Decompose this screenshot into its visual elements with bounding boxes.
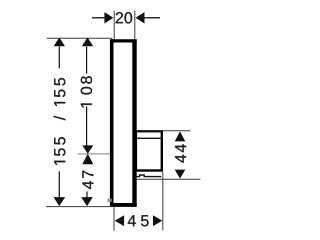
dim 44 arrow up [175, 131, 186, 141]
dim 108 line upper stub [86, 47, 88, 74]
dim 155/155 bottom arrow [54, 197, 66, 206]
dim 20 left arrow [104, 12, 113, 23]
dim 47 line lower stub [86, 192, 88, 198]
dim 155/155 top arrow [54, 37, 65, 46]
plate top edge [111, 39, 137, 42]
dim 44 arrow down [175, 170, 186, 179]
dim 20 right extension line [134, 11, 136, 40]
dim 155/155 text (rotated) [54, 78, 66, 165]
escutcheon plate left edge (front face) [110, 39, 114, 207]
dim 45 right arrow [153, 215, 162, 226]
dim 44 text (rotated) [175, 144, 186, 162]
dim 108 top arrow [82, 37, 93, 46]
dim 47 top arrow (bow-tie lower) [82, 154, 93, 165]
dim 45 text [128, 215, 149, 226]
44 bottom extension line [135, 178, 200, 180]
dim 45 right extension line [162, 172, 164, 231]
plate corner detail [108, 199, 112, 202]
dim 45 left extension line [113, 207, 115, 230]
dim 155/155 line lower stub [58, 171, 60, 197]
box bottom stub line with bump (44 bottom extension) [134, 175, 161, 177]
dim 20 left extension line [113, 11, 115, 40]
plate bottom edge [111, 203, 137, 207]
left bottom extension line [46, 206, 112, 208]
dim 108 text (rotated) [81, 76, 92, 107]
dim 155/155 line upper stub [58, 47, 60, 69]
left top extension line [47, 37, 113, 39]
dim 108 line lower stub [86, 107, 88, 147]
gray center line [78, 153, 111, 155]
box inner top line [137, 137, 160, 139]
dim 45 left arrow [115, 215, 124, 226]
dim 20 right tail [145, 17, 161, 19]
dim 20 text [116, 12, 132, 23]
valve body box [136, 131, 162, 170]
dim 20 right arrow [136, 12, 145, 23]
dim 47 bottom arrow [81, 197, 93, 206]
dim 47 text (rotated) [82, 171, 93, 189]
plate right edge [132, 39, 136, 207]
dim 20 : line [92, 17, 104, 19]
dim 108 bottom arrow (bow-tie upper) [82, 145, 93, 153]
44 top extension line [136, 130, 191, 132]
